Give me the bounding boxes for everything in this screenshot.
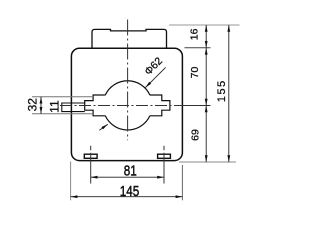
dimension line 70	[205, 48, 207, 106]
left slot cut	[85, 95, 106, 116]
svg-text:81: 81	[124, 162, 137, 179]
right slot cut	[150, 95, 170, 116]
dimension line 69	[205, 106, 207, 163]
top extension line (16)	[169, 24, 240, 26]
extension line 145 left	[70, 162, 72, 201]
leader arrow phi62 lower	[99, 124, 108, 130]
bottom extension line	[179, 161, 236, 163]
extension line 145 right	[181, 165, 183, 200]
right mounting slot centerline	[163, 146, 165, 151]
svg-text:155: 155	[216, 79, 228, 102]
left mounting slot centerline	[90, 146, 92, 151]
svg-text:145: 145	[120, 182, 140, 199]
circle window bottom arc	[105, 116, 150, 130]
svg-text:32: 32	[25, 98, 39, 112]
left mounting slot	[84, 154, 97, 158]
dimension line 32	[40, 97, 42, 114]
dimension line 81	[91, 176, 164, 178]
svg-text:70: 70	[189, 67, 201, 79]
extension line 32 bottom	[32, 113, 93, 115]
dimension line 145	[71, 196, 183, 198]
horizontal centerline extension right	[184, 105, 211, 107]
svg-text:Φ62: Φ62	[142, 55, 165, 78]
horizontal centerline	[60, 105, 184, 107]
vertical centerline	[127, 20, 129, 141]
svg-text:11: 11	[47, 100, 61, 113]
svg-text:16: 16	[188, 28, 200, 40]
left terminal stub	[62, 103, 85, 112]
leader line phi62	[145, 67, 165, 87]
right mounting slot	[158, 154, 171, 158]
circle window top arc	[105, 81, 150, 95]
dimension line 155	[228, 25, 230, 162]
top terminal block	[92, 29, 167, 48]
svg-text:69: 69	[190, 129, 202, 141]
extension line 32 top	[32, 96, 93, 98]
dimension line 16	[205, 25, 207, 48]
body top extension line	[185, 47, 211, 49]
body outline	[71, 48, 182, 160]
